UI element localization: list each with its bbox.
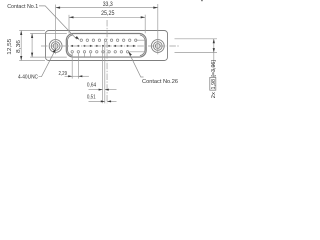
pin row bottom (71, 51, 129, 53)
svg-text:8,36: 8,36 (16, 40, 22, 53)
svg-text:2,29: 2,29 (59, 71, 68, 77)
centerline vertical (106, 20, 108, 103)
svg-text:33,3: 33,3 (103, 1, 113, 8)
arrow 1,98 down (213, 48, 215, 53)
stray mark top edge (201, 0, 202, 1)
dim 25,25 extension left (68, 15, 70, 34)
svg-text:0,51: 0,51 (87, 95, 96, 101)
screw hole left (49, 40, 62, 53)
dim 8,36 line (31, 34, 33, 58)
pin row top (80, 39, 137, 41)
dim 2,29 line (65, 75, 73, 77)
dim 33,3 extension left (55, 5, 57, 55)
svg-text:Contact No.1: Contact No.1 (7, 4, 38, 10)
bottom pin solder tails (85, 54, 91, 58)
dim 8,36 extension top (30, 33, 67, 35)
dim 1,98 extension bottom stub (129, 51, 146, 53)
shell inner left arc (68, 35, 73, 56)
leader Contact No.26 (129, 53, 144, 77)
dim 33,3 extension right (157, 4, 159, 54)
svg-text:1,98: 1,98 (211, 79, 217, 90)
dim 1,98 extension top right (175, 38, 218, 40)
dim 25,25 extension right (144, 15, 146, 34)
dim 12,55 line (20, 31, 22, 61)
shell inner right arc (140, 35, 145, 56)
screw hole right (151, 40, 164, 53)
arrow 8,36 top (31, 34, 33, 39)
pin row middle (filled, on centerline) (71, 45, 135, 47)
flange outline (46, 31, 168, 61)
dim 12,55 extension bottom (19, 60, 45, 62)
dim 1,98 extension bottom right (175, 52, 218, 54)
svg-text:0,64: 0,64 (87, 82, 96, 88)
dim 1,98 vertical line (213, 39, 215, 78)
dim 2,29 extension left (71, 53, 73, 79)
arrow 2,29 left (outside) (68, 75, 72, 77)
arrow 25,25 right (141, 16, 146, 18)
svg-text:12,55: 12,55 (7, 39, 13, 55)
arrow 33,3 left (56, 7, 61, 9)
shell D outline (66, 34, 146, 58)
dim 0,51 line (89, 100, 105, 102)
arrow 25,25 left (69, 16, 74, 18)
dim 0,64 extension right (from top row pin) (104, 41, 106, 104)
dim 0,64 line (89, 89, 103, 91)
leader Contact No.1 (39, 6, 77, 39)
arrow 0,51 right (107, 100, 111, 102)
dim 8,36 extension bottom (30, 56, 67, 58)
svg-text:[=3,96]: [=3,96] (211, 60, 217, 77)
svg-text:2x: 2x (211, 92, 217, 98)
svg-text:4-40UNC: 4-40UNC (18, 74, 38, 80)
arrow 33,3 right (153, 7, 158, 9)
arrow 12,55 bottom (20, 56, 22, 61)
svg-text:Contact No.26: Contact No.26 (142, 79, 178, 85)
dim 25,25 line (69, 16, 145, 18)
arrow 12,55 top (20, 31, 22, 36)
arrow 8,36 bottom (31, 53, 33, 58)
arrow 1,98 up (213, 39, 215, 44)
dim 12,55 extension top (19, 30, 45, 32)
arrow 0,51 left (101, 100, 105, 102)
dim 2,29 extension right (77, 53, 79, 79)
dim 1,98 extension top row stub (136, 39, 146, 41)
dim 33,3 line (56, 7, 158, 9)
arrow 0,64 left (99, 89, 103, 91)
leader 4-40UNC (39, 50, 56, 77)
dim 0,64 extension left (from middle row pin) (102, 46, 104, 103)
arrow 0,64 right (105, 89, 109, 91)
centerline horizontal (41, 45, 180, 47)
box around 1,98 (210, 77, 216, 90)
svg-text:25,25: 25,25 (101, 10, 115, 17)
arrow 2,29 right (outside) (78, 75, 82, 77)
